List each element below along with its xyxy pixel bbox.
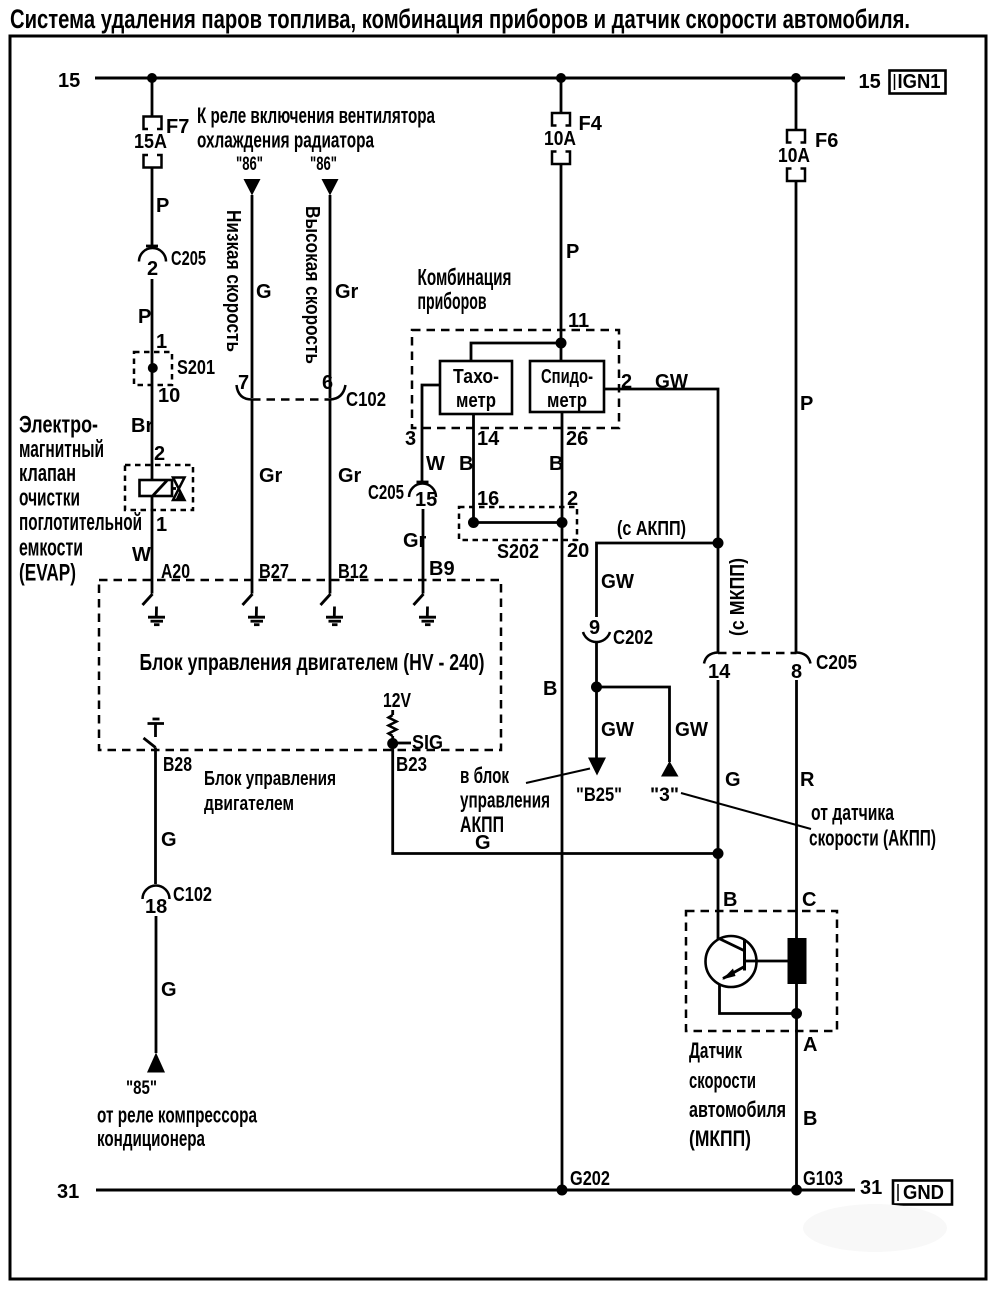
svg-text:SIG: SIG bbox=[412, 732, 443, 754]
svg-text:GW: GW bbox=[601, 719, 634, 741]
bus 15 (IGN1) bbox=[95, 77, 845, 80]
triangle to relay 86 (high) bbox=[322, 179, 339, 196]
svg-text:B: B bbox=[803, 1108, 817, 1130]
svg-text:кондиционера: кондиционера bbox=[97, 1126, 206, 1151]
junction on bus at F7 bbox=[147, 73, 157, 83]
ground A20 bbox=[143, 580, 166, 625]
svg-text:C: C bbox=[802, 889, 816, 911]
wire C102-6 to B12 bbox=[329, 400, 332, 581]
callout line to B25 bbox=[526, 769, 590, 784]
ground G103 bbox=[791, 1185, 802, 1196]
svg-text:метр: метр bbox=[547, 390, 587, 412]
svg-text:B28: B28 bbox=[163, 754, 192, 776]
svg-text:9: 9 bbox=[589, 617, 600, 639]
SIG node bbox=[387, 738, 398, 749]
svg-text:(с МКПП): (с МКПП) bbox=[727, 558, 749, 636]
svg-text:15A: 15A bbox=[134, 131, 167, 153]
junction on bus at F6 bbox=[791, 73, 801, 83]
connector C102 pin 6 bbox=[330, 385, 346, 400]
connector C205 pin 14 bbox=[704, 653, 718, 664]
svg-text:G: G bbox=[475, 832, 491, 854]
svg-text:P: P bbox=[566, 241, 579, 263]
ECU box bbox=[99, 580, 501, 750]
svg-text:Блок управления: Блок управления bbox=[204, 768, 336, 790]
svg-text:автомобиля: автомобиля bbox=[689, 1097, 786, 1122]
svg-text:Система удаления паров топлива: Система удаления паров топлива, комбинац… bbox=[10, 4, 910, 34]
svg-text:12V: 12V bbox=[383, 690, 412, 712]
svg-text:"86": "86" bbox=[236, 154, 263, 175]
svg-text:клапан: клапан bbox=[19, 460, 76, 487]
svg-text:R: R bbox=[800, 769, 815, 791]
svg-text:Br: Br bbox=[131, 415, 153, 437]
svg-text:C205: C205 bbox=[368, 482, 404, 504]
wire GW junction to C205-14 bbox=[717, 543, 720, 653]
svg-text:очистки: очистки bbox=[19, 485, 80, 512]
svg-text:F6: F6 bbox=[815, 130, 838, 152]
svg-text:15: 15 bbox=[58, 70, 80, 92]
svg-text:B: B bbox=[543, 678, 557, 700]
svg-text:31: 31 bbox=[57, 1181, 79, 1203]
tachometer box bbox=[440, 361, 512, 414]
arrow from "85" bbox=[147, 1053, 165, 1073]
svg-text:магнитный: магнитный bbox=[19, 436, 104, 463]
svg-text:18: 18 bbox=[145, 896, 167, 918]
svg-text:приборов: приборов bbox=[418, 288, 487, 314]
svg-text:G: G bbox=[161, 979, 177, 1001]
arrow out to B25 bbox=[588, 758, 606, 776]
ground G202 bbox=[557, 1185, 568, 1196]
connector C102 dashed link bbox=[252, 398, 330, 401]
svg-text:1: 1 bbox=[156, 331, 167, 353]
triangle to relay 86 (low) bbox=[244, 179, 261, 196]
svg-text:2: 2 bbox=[154, 443, 165, 465]
wire to "3" arrow bbox=[597, 687, 670, 762]
svg-text:G103: G103 bbox=[803, 1168, 843, 1190]
svg-text:P: P bbox=[156, 195, 169, 217]
wire bus to F4 bbox=[560, 78, 563, 113]
speedometer box bbox=[530, 361, 604, 412]
svg-text:15: 15 bbox=[415, 489, 437, 511]
wire EVAP to A20 bbox=[151, 496, 154, 580]
svg-text:P: P bbox=[138, 306, 151, 328]
svg-text:B: B bbox=[549, 453, 563, 475]
transistor Q (speed sensor) bbox=[706, 936, 789, 987]
svg-text:"B25": "B25" bbox=[576, 785, 622, 806]
junction B25/3 split bbox=[591, 682, 602, 693]
sensor label bbox=[689, 1038, 786, 1151]
splice S201 bbox=[134, 352, 215, 385]
wire tacho pin 3 bbox=[422, 385, 440, 482]
wire C202 to split bbox=[595, 642, 598, 687]
svg-text:B9: B9 bbox=[429, 558, 455, 580]
svg-text:10A: 10A bbox=[544, 128, 576, 150]
ground B9 bbox=[414, 580, 437, 625]
svg-text:G202: G202 bbox=[570, 1168, 610, 1190]
svg-text:2: 2 bbox=[147, 258, 158, 280]
connector C202 pin 9 bbox=[583, 617, 653, 649]
svg-text:Низкая скорость: Низкая скорость bbox=[222, 210, 244, 352]
svg-text:Спидо-: Спидо- bbox=[541, 366, 593, 388]
svg-text:A: A bbox=[803, 1034, 817, 1056]
ground B28 (inside ECU) bbox=[144, 719, 165, 748]
svg-text:C205: C205 bbox=[171, 248, 206, 270]
svg-text:охлаждения радиатора: охлаждения радиатора bbox=[197, 128, 375, 153]
svg-text:управления: управления bbox=[460, 788, 550, 813]
junction pin 11 bbox=[556, 338, 567, 349]
wire to B25 arrow bbox=[595, 687, 598, 758]
wire sensor to G103 bbox=[795, 984, 798, 1190]
svg-text:C102: C102 bbox=[173, 884, 212, 906]
emitter wire loop bbox=[720, 984, 797, 1014]
note от датчика скорости (АКПП) bbox=[809, 800, 936, 851]
svg-text:11: 11 bbox=[568, 310, 589, 332]
svg-text:от реле компрессора: от реле компрессора bbox=[97, 1103, 258, 1128]
svg-text:поглотительной: поглотительной bbox=[19, 509, 142, 536]
EVAP description bbox=[19, 412, 142, 587]
fuse F4 10A bbox=[552, 113, 570, 164]
svg-text:S202: S202 bbox=[497, 541, 539, 563]
svg-text:C102: C102 bbox=[346, 389, 386, 411]
svg-text:3: 3 bbox=[405, 428, 416, 450]
svg-text:метр: метр bbox=[456, 390, 496, 412]
svg-text:Высокая скорость: Высокая скорость bbox=[301, 206, 323, 364]
svg-text:W: W bbox=[426, 453, 445, 475]
svg-text:8: 8 bbox=[791, 661, 802, 683]
note в блок управления АКПП bbox=[460, 763, 550, 837]
svg-text:Тахо-: Тахо- bbox=[453, 366, 499, 388]
wire F4 to cluster pin 11 bbox=[560, 164, 563, 361]
junction on bus at F4 bbox=[556, 73, 566, 83]
svg-text:C202: C202 bbox=[613, 627, 653, 649]
svg-text:B: B bbox=[459, 453, 473, 475]
wire B23 down and right bbox=[393, 744, 718, 854]
ground B12 bbox=[321, 580, 344, 625]
wire speedo pin 2 GW bbox=[604, 389, 718, 543]
svg-text:IGN1: IGN1 bbox=[898, 71, 941, 93]
svg-text:F7: F7 bbox=[166, 116, 189, 138]
fuse F6 10A bbox=[787, 130, 805, 181]
svg-text:К реле включения вентилятора: К реле включения вентилятора bbox=[197, 103, 436, 128]
svg-text:15: 15 bbox=[859, 71, 881, 93]
wire C205-8 to sensor C bbox=[795, 680, 798, 938]
wire C102-18 to "85" bbox=[155, 916, 158, 1053]
svg-text:20: 20 bbox=[567, 540, 589, 562]
wire bus to F7 bbox=[151, 78, 154, 116]
wire C205-15 to B9 bbox=[422, 509, 425, 580]
connector C205 pin 8 bbox=[797, 653, 811, 664]
connector C205 dashed link bbox=[718, 652, 797, 655]
svg-text:скорости (АКПП): скорости (АКПП) bbox=[809, 826, 936, 851]
connector C205 pin 15 bbox=[368, 482, 437, 511]
svg-text:1: 1 bbox=[156, 514, 167, 536]
net box IGN1 bbox=[890, 71, 946, 94]
wire tacho pin 14 to S202 bbox=[472, 414, 475, 523]
connector C205 pin 2 bbox=[139, 246, 206, 280]
svg-text:31: 31 bbox=[860, 1177, 882, 1199]
svg-text:2: 2 bbox=[621, 371, 632, 393]
wire to tachometer bbox=[471, 343, 561, 361]
svg-text:F4: F4 bbox=[579, 113, 603, 135]
svg-text:P: P bbox=[800, 393, 813, 415]
svg-text:26: 26 bbox=[566, 428, 588, 450]
svg-text:Комбинация: Комбинация bbox=[418, 264, 512, 290]
wire C102-7 to B27 bbox=[251, 400, 254, 581]
svg-text:B23: B23 bbox=[396, 754, 427, 776]
net box GND bbox=[893, 1181, 952, 1205]
junction GW split bbox=[713, 538, 724, 549]
svg-text:GW: GW bbox=[675, 719, 708, 741]
svg-text:двигателем: двигателем bbox=[204, 793, 294, 815]
svg-text:10: 10 bbox=[158, 385, 180, 407]
wire C205-14 to sensor B bbox=[717, 680, 720, 940]
connector C102 pin 18 bbox=[143, 884, 213, 918]
fuse F7 15A bbox=[144, 117, 162, 168]
wire low speed to C102-7 bbox=[251, 195, 254, 398]
svg-text:емкости: емкости bbox=[19, 535, 83, 562]
svg-text:B: B bbox=[723, 889, 737, 911]
sensor element (collector bar) bbox=[788, 938, 807, 984]
svg-text:GW: GW bbox=[655, 371, 688, 393]
speed sensor box bbox=[686, 911, 837, 1031]
svg-text:10A: 10A bbox=[778, 145, 810, 167]
svg-text:6: 6 bbox=[322, 372, 333, 394]
svg-text:C205: C205 bbox=[816, 652, 857, 674]
wire high speed to C102-6 bbox=[329, 195, 332, 398]
EVAP valve bbox=[125, 465, 193, 510]
svg-text:GW: GW bbox=[601, 571, 634, 593]
junction G wire bbox=[713, 848, 724, 859]
wire C205-2 to S201 bbox=[151, 279, 154, 480]
svg-text:S201: S201 bbox=[177, 357, 215, 379]
svg-text:(с АКПП): (с АКПП) bbox=[617, 518, 686, 540]
connector C102 pin 7 bbox=[237, 385, 253, 400]
svg-text:14: 14 bbox=[477, 428, 500, 450]
svg-text:скорости: скорости bbox=[689, 1068, 756, 1093]
svg-text:"86": "86" bbox=[310, 154, 337, 175]
callout line from "3" bbox=[681, 793, 811, 829]
svg-text:"85": "85" bbox=[126, 1078, 157, 1099]
wire F7 to C205-2 bbox=[151, 168, 154, 246]
svg-text:(EVAP): (EVAP) bbox=[19, 560, 76, 587]
arrow in from "3" bbox=[661, 761, 679, 777]
svg-text:Gr: Gr bbox=[335, 281, 359, 303]
wire speedo pin 26 down bbox=[561, 412, 564, 1190]
splice S202 bbox=[459, 507, 577, 563]
bus 31 (GND) bbox=[96, 1189, 855, 1192]
svg-text:Gr: Gr bbox=[403, 530, 427, 552]
svg-text:G: G bbox=[256, 281, 272, 303]
12V pullup bbox=[383, 690, 412, 739]
svg-text:"3": "3" bbox=[650, 785, 679, 806]
svg-text:от датчика: от датчика bbox=[811, 800, 895, 825]
svg-text:Блок управления двигателем (HV: Блок управления двигателем (HV - 240) bbox=[140, 649, 485, 675]
instrument cluster box bbox=[412, 330, 619, 428]
junction emitter to C wire bbox=[791, 1008, 802, 1019]
svg-text:W: W bbox=[132, 544, 151, 566]
wire bus to F6 bbox=[795, 78, 798, 129]
svg-text:G: G bbox=[725, 769, 741, 791]
svg-text:Датчик: Датчик bbox=[689, 1038, 743, 1063]
wire F6 to C205-8 bbox=[795, 181, 798, 653]
svg-text:Электро-: Электро- bbox=[19, 412, 98, 439]
svg-text:G: G bbox=[161, 829, 177, 851]
svg-text:7: 7 bbox=[238, 372, 249, 394]
wire branch to C202 bbox=[597, 543, 719, 617]
ground B27 bbox=[243, 580, 266, 625]
svg-text:Gr: Gr bbox=[259, 465, 283, 487]
svg-text:GND: GND bbox=[903, 1182, 944, 1204]
svg-text:(МКПП): (МКПП) bbox=[689, 1126, 751, 1151]
svg-text:Gr: Gr bbox=[338, 465, 362, 487]
svg-text:14: 14 bbox=[708, 661, 731, 683]
svg-text:в блок: в блок bbox=[460, 763, 510, 788]
wire B28 to C102-18 bbox=[154, 748, 157, 885]
